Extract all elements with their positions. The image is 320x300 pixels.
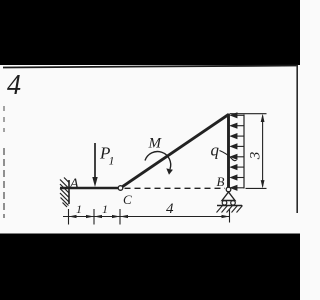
ground hatching bbox=[217, 206, 243, 213]
svg-text:1: 1 bbox=[102, 202, 108, 216]
svg-text:A: A bbox=[69, 177, 79, 192]
wall line bbox=[68, 180, 70, 204]
border right line bbox=[296, 65, 298, 213]
border top line bbox=[3, 66, 298, 68]
member apex-B (vertical) bbox=[227, 114, 230, 190]
load arrows bbox=[231, 113, 244, 190]
dimension 3 bottom tick bbox=[246, 187, 267, 189]
wall hatching at A bbox=[60, 178, 69, 208]
member A-C bbox=[60, 187, 121, 190]
rollers bbox=[222, 201, 227, 206]
bottom dimension line bbox=[63, 216, 230, 218]
svg-text:B: B bbox=[217, 174, 225, 189]
bottom dimension ticks bbox=[69, 209, 230, 225]
node B circle bbox=[226, 187, 231, 192]
top scan band (black page edge) bbox=[0, 0, 300, 65]
bottom scan band (black page edge) bbox=[0, 234, 300, 300]
ground line under roller bbox=[217, 205, 242, 207]
dashed line C-B bbox=[125, 187, 226, 189]
force P1 arrow bbox=[94, 143, 96, 178]
border left line (faint, broken) bbox=[3, 148, 5, 218]
q leader line bbox=[220, 151, 237, 161]
distributed load q tail line bbox=[243, 115, 245, 189]
member C-apex (incline) bbox=[123, 115, 229, 187]
dimension 3 top tick bbox=[230, 113, 267, 115]
bottom dimension arrowheads bbox=[69, 215, 230, 218]
svg-text:M: M bbox=[148, 136, 163, 152]
svg-text:1: 1 bbox=[76, 202, 82, 216]
svg-text:3: 3 bbox=[248, 152, 264, 161]
svg-text:4: 4 bbox=[166, 201, 174, 217]
svg-text:C: C bbox=[123, 192, 132, 207]
svg-text:4: 4 bbox=[7, 70, 21, 101]
svg-text:q: q bbox=[211, 141, 220, 160]
roller support triangle at B bbox=[222, 192, 235, 201]
node C circle bbox=[118, 186, 123, 191]
moment arc arrow bbox=[145, 152, 171, 169]
svg-text:1: 1 bbox=[109, 154, 115, 168]
dimension 3 line with arrows bbox=[262, 116, 264, 187]
